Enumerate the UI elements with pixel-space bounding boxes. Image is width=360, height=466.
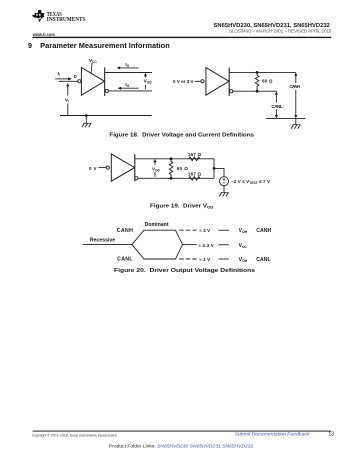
svg-text:CANH: CANH bbox=[117, 228, 133, 234]
svg-text:Figure 18. Driver Voltage and: Figure 18. Driver Voltage and Current De… bbox=[109, 132, 254, 138]
svg-text:IO: IO bbox=[125, 82, 129, 88]
svg-text:VOH: VOH bbox=[239, 228, 248, 234]
ground (fig18 left) bbox=[82, 117, 91, 128]
svg-text:VI: VI bbox=[65, 98, 69, 104]
input bubble U3 bbox=[106, 166, 109, 169]
wire reference line (fig18 right) bbox=[266, 117, 306, 119]
wire CANH output (left fig) bbox=[105, 72, 152, 74]
wire input (fig19) bbox=[98, 167, 106, 169]
junction dot bbox=[170, 177, 173, 180]
svg-text:–2 V ≤ VTEST ≤ 7 V: –2 V ≤ VTEST ≤ 7 V bbox=[231, 179, 270, 185]
annotation CANL arrow bbox=[272, 91, 283, 118]
ground (fig19) bbox=[219, 186, 228, 197]
svg-text:Dominant: Dominant bbox=[145, 222, 169, 228]
junction dot bbox=[256, 71, 259, 74]
annotation V_I bbox=[65, 83, 69, 116]
svg-text:SLOS346O – MARCH 2001 – REVISE: SLOS346O – MARCH 2001 – REVISED APRIL 20… bbox=[229, 28, 332, 33]
svg-text:VOH: VOH bbox=[239, 257, 248, 263]
svg-text:CANL: CANL bbox=[117, 257, 133, 263]
annotation VOD (fig18) bbox=[144, 73, 153, 89]
svg-text:13: 13 bbox=[328, 431, 334, 437]
svg-text:≈ 2.3 V: ≈ 2.3 V bbox=[198, 243, 214, 248]
svg-text:≈ 1 V: ≈ 1 V bbox=[199, 257, 210, 262]
header rule bbox=[33, 37, 332, 38]
svg-text:D: D bbox=[74, 74, 77, 79]
driver U2 triangle bbox=[206, 68, 229, 96]
wire ground bus (fig18 left) bbox=[60, 115, 152, 117]
wire VCC lead bbox=[90, 63, 93, 73]
svg-text:IO: IO bbox=[125, 62, 129, 68]
svg-text:Parameter Measurement Informat: Parameter Measurement Information bbox=[40, 41, 170, 50]
arrow I_O top bbox=[117, 66, 139, 69]
annotation CANH arrow bbox=[289, 72, 300, 118]
junction dot node bbox=[213, 167, 216, 170]
output bubble CANL U2 bbox=[230, 90, 233, 93]
svg-text:II: II bbox=[58, 71, 60, 77]
svg-text:INSTRUMENTS: INSTRUMENTS bbox=[47, 17, 86, 23]
TI logo mark bbox=[32, 10, 44, 22]
svg-text:VOL: VOL bbox=[239, 243, 248, 249]
level line VOH top bbox=[218, 229, 229, 231]
junction dot bbox=[170, 157, 173, 160]
svg-text:≈ 3 V: ≈ 3 V bbox=[199, 228, 210, 233]
driver U3 output bar bbox=[134, 154, 136, 181]
svg-text:Recessive: Recessive bbox=[90, 238, 115, 244]
resistor 60 ohm (fig19) bbox=[169, 159, 173, 179]
wire driver D input bbox=[59, 80, 78, 82]
svg-text:CANH: CANH bbox=[256, 228, 271, 234]
svg-text:Figure 20. Driver Output Volt: Figure 20. Driver Output Voltage Definit… bbox=[114, 268, 256, 274]
svg-text:www.ti.com: www.ti.com bbox=[32, 32, 55, 37]
dashed level 1V bbox=[179, 258, 196, 260]
wire CANH (fig18 right) bbox=[229, 71, 296, 73]
resistor 60 ohm (fig18) bbox=[255, 72, 259, 91]
svg-text:Figure 19. Driver VOD: Figure 19. Driver VOD bbox=[150, 203, 213, 209]
wire mid stub bbox=[183, 244, 197, 246]
svg-text:0 V: 0 V bbox=[89, 166, 97, 171]
wire input (fig18 right) bbox=[195, 80, 201, 82]
level line bottom bbox=[218, 258, 229, 260]
source VTEST circle bbox=[220, 177, 229, 186]
wire right junction vertical bbox=[213, 159, 215, 179]
output bubble CANL (left fig) bbox=[105, 89, 108, 92]
wire CANL output (left fig) bbox=[109, 90, 153, 92]
wire to source bbox=[214, 168, 224, 176]
arrow I_I bbox=[55, 77, 72, 80]
eye diagram hexagon bbox=[132, 230, 183, 259]
svg-text:VOD: VOD bbox=[144, 79, 153, 85]
wire recessive mid line bbox=[83, 244, 132, 246]
svg-text:CANL: CANL bbox=[272, 104, 283, 109]
annotation VOD (fig19) bbox=[152, 159, 161, 177]
driver U2 output bar bbox=[228, 68, 230, 97]
svg-text:167 Ω: 167 Ω bbox=[188, 152, 202, 157]
junction dot bbox=[256, 90, 259, 93]
wire bottom rail (fig19) bbox=[138, 177, 214, 179]
svg-text:Copyright © 2001–2018, Texas I: Copyright © 2001–2018, Texas Instruments… bbox=[32, 432, 117, 437]
driver U3 triangle bbox=[111, 154, 134, 181]
driver U1 output bar bbox=[104, 68, 106, 97]
svg-text:60 Ω: 60 Ω bbox=[177, 166, 188, 171]
svg-text:Product Folder Links: SN65HVD2: Product Folder Links: SN65HVD230 SN65HVD… bbox=[109, 444, 254, 449]
input bubble U1 bbox=[78, 80, 81, 83]
svg-text:CANH: CANH bbox=[289, 84, 300, 89]
level line VOL mid bbox=[218, 244, 229, 246]
wire CANL (fig18 right) bbox=[233, 90, 277, 92]
input bubble U2 bbox=[201, 80, 204, 83]
svg-text:VCC: VCC bbox=[89, 58, 97, 64]
svg-text:60 Ω: 60 Ω bbox=[262, 78, 273, 83]
resistor 167 ohm top bbox=[189, 157, 200, 161]
driver U1 triangle bbox=[81, 68, 104, 96]
arrow I_O bottom bbox=[118, 87, 139, 90]
resistor 167 ohm bottom bbox=[189, 177, 200, 181]
svg-text:VOD: VOD bbox=[152, 166, 161, 172]
ground (fig18 right) bbox=[291, 118, 300, 128]
svg-text:0 V or 3 V: 0 V or 3 V bbox=[173, 79, 194, 84]
output bubble CANL U3 bbox=[135, 177, 138, 180]
svg-text:167 Ω: 167 Ω bbox=[188, 171, 202, 176]
svg-text:Submit Documentation Feedback: Submit Documentation Feedback bbox=[235, 431, 311, 436]
wire top rail (fig19) bbox=[135, 158, 214, 160]
svg-text:9: 9 bbox=[28, 41, 32, 50]
footer rule bbox=[33, 431, 332, 432]
dashed level 3V bbox=[179, 229, 196, 231]
junction dot bbox=[85, 114, 88, 117]
svg-text:CANL: CANL bbox=[256, 257, 271, 263]
